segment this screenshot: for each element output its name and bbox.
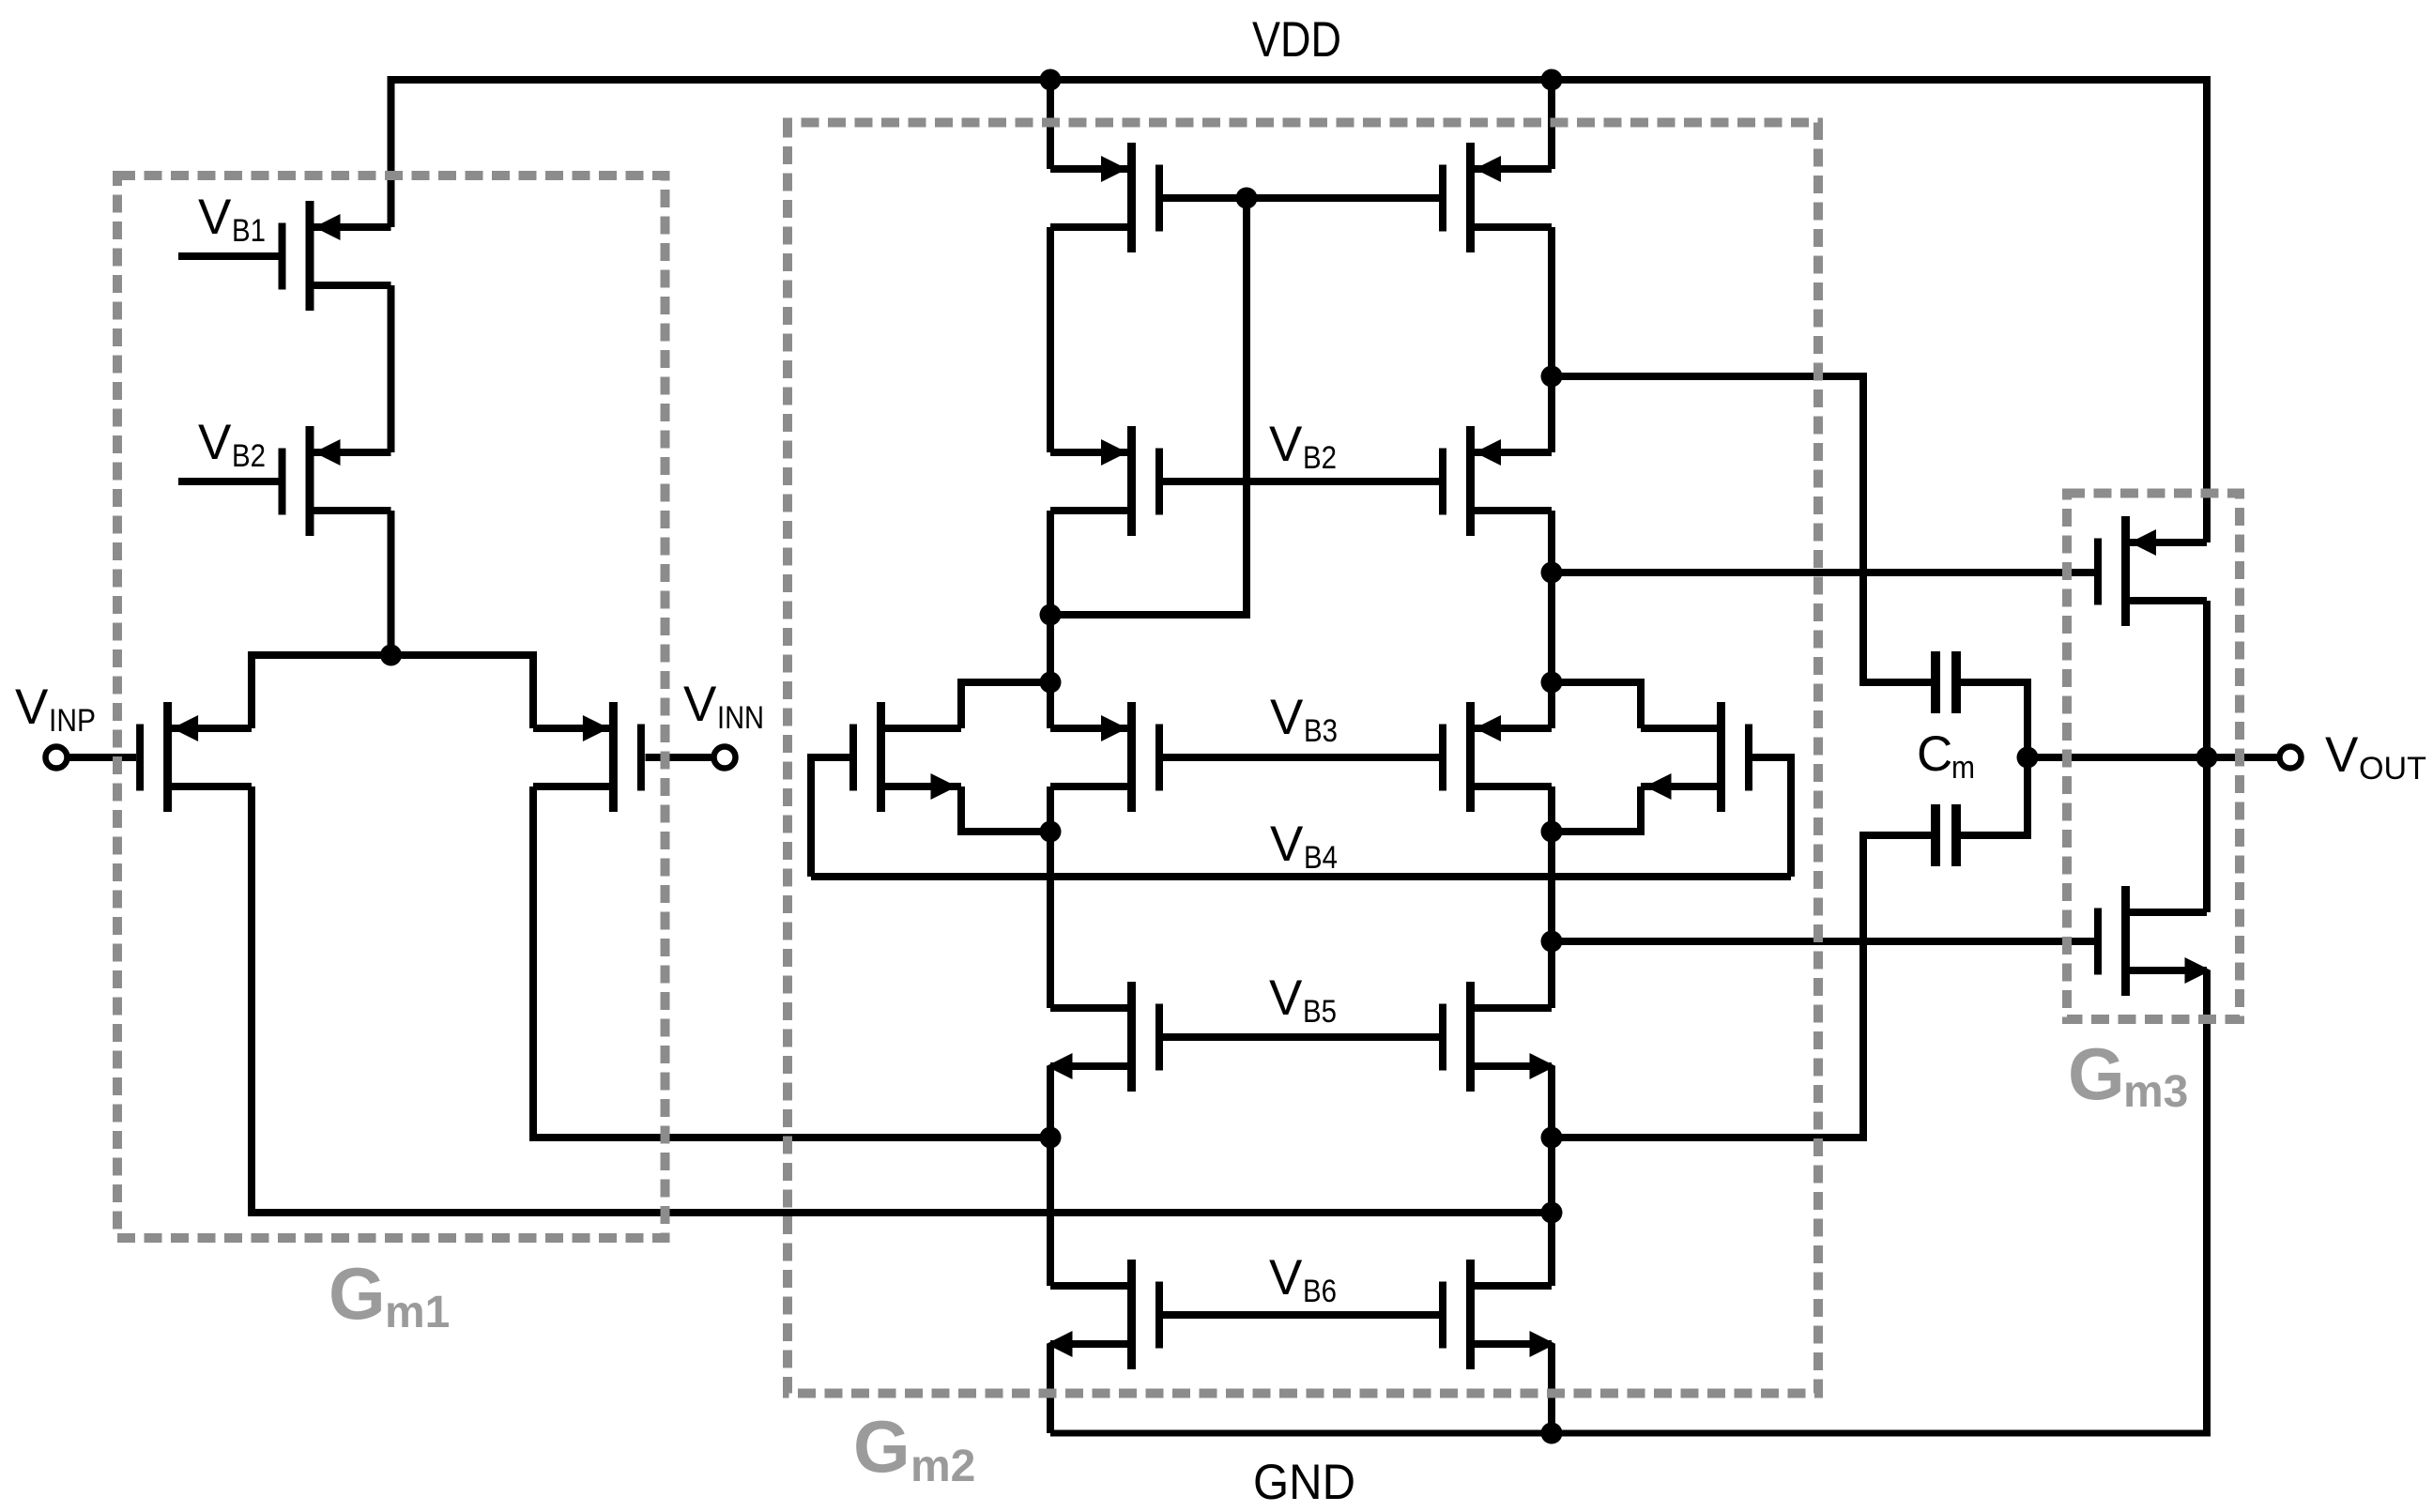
transistor M14 NMOS right (gate VB6) (1443, 1260, 1556, 1369)
svg-text:G: G (2068, 1032, 2125, 1115)
wire VDD to M15 source (2203, 80, 2211, 542)
label VDD (1252, 12, 1341, 68)
svg-text:GND: GND (1253, 1455, 1355, 1510)
VDD rail (388, 76, 2211, 84)
label Gm2 (853, 1405, 975, 1491)
svg-text:V: V (2325, 727, 2359, 783)
svg-text:G: G (853, 1405, 910, 1488)
transistor M6 cascode PMOS right (gate VB2) (1443, 426, 1552, 536)
svg-text:B1: B1 (232, 213, 266, 249)
node cap tap junction (1541, 366, 1563, 388)
node tail junction (380, 645, 402, 666)
svg-text:B2: B2 (232, 438, 266, 474)
transistor M11 NMOS left (gate VB5) (1047, 982, 1160, 1092)
wire M5 drain down left column (1047, 511, 1054, 682)
label VB5 (1269, 970, 1337, 1030)
wire VINN gate to port (646, 754, 715, 761)
tail wire to diff pair sources (252, 655, 533, 728)
wire M2 drain down and right to node A (left column) (533, 787, 1050, 1138)
svg-text:V: V (1269, 1250, 1303, 1306)
transistor M4 mirror PMOS right (1443, 143, 1552, 252)
node Gm3-N gate tap junction (1541, 931, 1563, 953)
svg-text:B4: B4 (1304, 840, 1338, 876)
svg-text:C: C (1917, 726, 1952, 782)
wire M16 source to GND rail (2203, 970, 2211, 1433)
node C junction (1040, 821, 1062, 843)
node Cm junction (2017, 747, 2039, 769)
wire M1 drain down and right to node B (right column) (252, 787, 1552, 1213)
capacitor Cm top plates (1931, 651, 1940, 713)
wire node C down to M11 (1047, 832, 1054, 1008)
svg-text:m1: m1 (385, 1288, 450, 1337)
M7 gate to VB4 wire (811, 757, 849, 877)
node VDD-right junction (1541, 69, 1563, 91)
wire M12 source to M14 drain (1548, 1066, 1555, 1286)
label VB3 (1270, 690, 1338, 749)
svg-text:V: V (1270, 690, 1304, 745)
gate wire VB6 row (1159, 1311, 1443, 1319)
transistor M-VB1 (PMOS, gate VB1) (283, 201, 391, 311)
label Gm1 (329, 1252, 450, 1337)
gate wire mirror PMOS pair (1159, 194, 1443, 202)
label VINP (15, 680, 96, 739)
label VB4 (1270, 817, 1338, 876)
node mirror gate junction (1236, 188, 1258, 209)
transistor M12 NMOS right (gate VB5) (1443, 982, 1556, 1092)
node B junction on right column (1541, 1202, 1563, 1224)
transistor M5 cascode PMOS left (gate VB2) (1050, 426, 1159, 536)
arrow M8 source (1645, 773, 1672, 800)
wire M3 drain to M5 source (1047, 227, 1054, 452)
wire M15 drain to VOUT node (2203, 601, 2211, 912)
node cap2 return junction (1541, 1127, 1563, 1149)
wire VDD to M3 source (1047, 80, 1054, 169)
svg-text:m: m (1951, 750, 1975, 786)
capacitor Cm top right wire (1960, 682, 2027, 757)
node A junction on left column (1040, 1127, 1062, 1149)
transistor M-VB2a (PMOS, gate VB2) (283, 426, 391, 536)
gate stub VB1 (178, 252, 283, 260)
node D junction (1541, 821, 1563, 843)
svg-text:m2: m2 (910, 1442, 975, 1491)
transistor M15 output PMOS (2098, 516, 2207, 626)
jog wire to M8 drain (1552, 682, 1641, 728)
wire M10 bottom to node D (1548, 787, 1555, 832)
wire M8 source to node D (1552, 787, 1641, 832)
svg-text:V: V (1270, 817, 1304, 872)
gate wire VB2 row (1159, 478, 1443, 485)
label Gm3 (2068, 1032, 2188, 1117)
svg-text:B5: B5 (1303, 994, 1337, 1030)
node VDD-left junction (1040, 69, 1062, 91)
transistor M1 input PMOS (VINP) (140, 702, 252, 812)
wire M14 source to GND rail (1548, 1344, 1555, 1433)
wire VINP port to gate (67, 754, 136, 761)
svg-text:VDD: VDD (1252, 12, 1341, 68)
wire M9 bottom to node C (1047, 787, 1054, 832)
capacitor Cm bottom plates (1931, 804, 1940, 866)
wire M6 drain down right column (1548, 511, 1555, 682)
M8 gate to VB4 wire (1752, 757, 1791, 877)
arrow M7 source (931, 773, 957, 800)
wire to Gm3 PMOS gate (1552, 569, 2098, 576)
transistor M9 cascode left (gate VB3) (1050, 702, 1159, 812)
label GND (1253, 1455, 1355, 1510)
capacitor Cm bottom right wire (1960, 757, 2027, 835)
node diode-connect junction (1040, 604, 1062, 626)
gate wire VB4 row (811, 873, 1791, 880)
svg-text:V: V (1269, 417, 1303, 472)
wire Cm node to VOUT node (2027, 754, 2207, 761)
wire M13 source to GND rail (1047, 1344, 1054, 1433)
node GND junction (1541, 1423, 1563, 1444)
jog wire to M7 drain (961, 682, 1050, 728)
svg-text:OUT: OUT (2359, 751, 2426, 787)
gate stub VB2 (178, 478, 283, 485)
svg-text:INN: INN (717, 700, 764, 736)
label VB6 (1269, 1250, 1337, 1309)
transistor M8 side NMOS right (gate VB4) (1641, 702, 1749, 812)
label VB2 (1269, 417, 1337, 476)
svg-text:V: V (1269, 970, 1303, 1026)
node row3 top-left junction (1040, 672, 1062, 694)
transistor M13 NMOS left (gate VB6) (1047, 1260, 1160, 1369)
wire VDD to M-VB1 source (388, 80, 395, 227)
Gm3 stage boundary box (2067, 494, 2240, 1020)
svg-text:INP: INP (49, 703, 96, 739)
label Cm (1917, 726, 1975, 786)
gate wire VB3 row (1159, 754, 1443, 761)
svg-text:G: G (329, 1252, 386, 1335)
node VOUT junction (2196, 747, 2218, 769)
node Gm3-P gate tap junction (1541, 562, 1563, 584)
svg-text:B2: B2 (1303, 440, 1337, 476)
GND rail (1050, 1430, 2211, 1437)
capacitor Cm bottom left wire (1552, 835, 1932, 1138)
wire VDD to M4 source (1548, 80, 1555, 169)
label VB2 (Gm1) (198, 415, 266, 474)
wire M-VB2 drain to tail node (388, 511, 395, 655)
transistor M16 output NMOS (2098, 886, 2211, 996)
wire column to M10 top (1548, 682, 1555, 728)
svg-text:V: V (198, 415, 232, 470)
wire column to M9 top (1047, 682, 1054, 728)
wire node D down to M12 (1548, 832, 1555, 1008)
port VOUT (2280, 747, 2302, 769)
diode-connect wire to mirror gates (1050, 198, 1247, 615)
node row3 top-right junction (1541, 672, 1563, 694)
label VB1 (198, 190, 266, 249)
gate wire VB5 row (1159, 1033, 1443, 1041)
transistor M3 mirror PMOS left (1050, 143, 1159, 252)
svg-text:V: V (683, 677, 717, 732)
transistor M2 input PMOS (VINN) (533, 702, 641, 812)
Gm1 stage boundary box (117, 176, 666, 1238)
svg-text:B3: B3 (1304, 713, 1338, 749)
Gm2 stage boundary box (788, 123, 1818, 1394)
transistor M10 cascode right (gate VB3) (1443, 702, 1552, 812)
svg-text:V: V (15, 680, 49, 735)
wire M11 source to M13 drain (1047, 1066, 1054, 1286)
wire cap tap to Cm top plate (1552, 376, 1932, 682)
wire VOUT node to port (2207, 754, 2281, 761)
label VINN (683, 677, 764, 736)
svg-text:B6: B6 (1303, 1274, 1337, 1309)
label VOUT (2325, 727, 2426, 787)
wire M7 source to node C (961, 787, 1050, 832)
transistor M7 side NMOS left (gate VB4) (853, 702, 961, 812)
port VINP (46, 747, 68, 769)
wire to Gm3 NMOS gate (1552, 938, 2098, 945)
svg-text:m3: m3 (2123, 1067, 2188, 1117)
wire M-VB1 drain to M-VB2 source (388, 285, 395, 452)
port VINN (714, 747, 736, 769)
svg-text:V: V (198, 190, 232, 245)
wire M4 drain to M6 source (1548, 227, 1555, 452)
